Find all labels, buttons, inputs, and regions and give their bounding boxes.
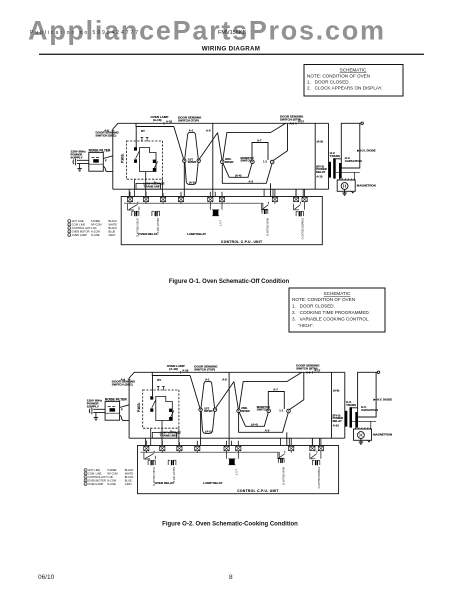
wire: filter to left vertical (lower, with hook): [103, 167, 113, 172]
svg-text:RELAY: RELAY: [316, 170, 325, 174]
label oven lamp (top): [151, 115, 203, 122]
svg-text:A-3: A-3: [249, 180, 254, 184]
terminal circle: [361, 122, 363, 124]
wire: main loop bottom: [113, 188, 329, 190]
svg-text:OVEN LAMP: OVEN LAMP: [72, 233, 87, 237]
label H.V. CAPACITOR: [345, 156, 363, 163]
svg-text:A-17: A-17: [298, 119, 305, 123]
connector stubs: [130, 189, 305, 197]
label A-18 tick on top wire: [163, 122, 165, 125]
svg-text:OVEN RELAY: OVEN RELAY: [138, 232, 157, 236]
cradle wire circle3-circle5 (lower): [222, 164, 271, 184]
arch wire between circles 1-2: [185, 132, 199, 159]
relay body outline: [140, 148, 157, 172]
wire: full-height vertical at x=212.8: [212, 123, 214, 196]
label door sensing switch (btm): [280, 115, 304, 122]
svg-text:Figure O-1. Oven Schematic-Off: Figure O-1. Oven Schematic-Off Condition: [169, 279, 290, 285]
svg-text:SCHEMATIC: SCHEMATIC: [324, 291, 351, 296]
svg-text:BLACK: BLACK: [109, 219, 118, 223]
wire: transformer to capacitor: [336, 158, 342, 160]
svg-text:Figure O-2. Oven Schematic-Coo: Figure O-2. Oven Schematic-Cooking Condi…: [162, 522, 298, 528]
svg-text:(A-2): (A-2): [189, 181, 195, 185]
svg-text:SWITCH (TOP): SWITCH (TOP): [178, 118, 199, 122]
wire: circle2 diagonal up to plateau: [199, 133, 217, 160]
svg-text:OVEN MOTOR: OVEN MOTOR: [72, 230, 90, 234]
relay coil 4 (power relay): [296, 211, 303, 216]
noise filter internals: [89, 158, 104, 165]
svg-text:2. COOKING TIME PROGRAMMED.: 2. COOKING TIME PROGRAMMED.: [292, 310, 370, 315]
svg-text:L.V.T: L.V.T: [218, 220, 222, 226]
H.V. diode symbol: [357, 150, 359, 152]
svg-text:P.W.B.: P.W.B.: [121, 153, 125, 163]
svg-text:MAGNETRON: MAGNETRON: [357, 184, 376, 188]
label 2nd interlock: [225, 157, 233, 164]
interlock switch circle 3: [221, 160, 225, 164]
svg-text:3. VARIABLE COOKING CONTRO: 3. VARIABLE COOKING CONTROL: [292, 317, 369, 322]
wire: main loop top: [113, 123, 329, 129]
label monitor switch: [241, 156, 254, 163]
svg-text:5-WIRE: 5-WIRE: [91, 219, 100, 223]
arrow mark: [351, 191, 354, 193]
svg-text:A-5: A-5: [206, 129, 211, 133]
svg-text:2. CLOCK APPEARS ON DISPLAY.: 2. CLOCK APPEARS ON DISPLAY.: [307, 86, 382, 91]
L.V. transformer blob: [213, 210, 219, 216]
legend: circled wire numbers: [68, 220, 71, 237]
wire: inner top run to relay: [136, 123, 174, 126]
rect wire above circle 4: [252, 143, 268, 161]
svg-text:WHITE: WHITE: [109, 223, 118, 227]
svg-text:NF-COM: NF-COM: [91, 223, 101, 227]
svg-text:LAMP RELAY: LAMP RELAY: [187, 232, 206, 236]
H.V. capacitor rectangle: [341, 123, 360, 168]
label H.V. TRANS: [330, 151, 340, 158]
svg-text:INTER: INTER: [225, 160, 233, 164]
svg-text:SUPPLY: SUPPLY: [71, 155, 84, 159]
svg-text:1-NF: 1-NF: [91, 226, 97, 230]
ground (power supply): [77, 164, 81, 172]
svg-text:FMV156KB: FMV156KB: [218, 30, 246, 36]
svg-text:MAIN RELAY D: MAIN RELAY D: [265, 218, 269, 236]
vertical relay designation texts: [136, 218, 305, 240]
svg-text:BLACK: BLACK: [109, 226, 118, 230]
svg-text:1. DOOR CLOSED.: 1. DOOR CLOSED.: [307, 80, 350, 85]
plug prongs: [73, 159, 89, 166]
relay contact arm: [136, 151, 158, 168]
relay coil 2: [152, 211, 160, 216]
svg-text:BLUE: BLUE: [109, 230, 116, 234]
svg-text:TRANS UNIT: TRANS UNIT: [144, 184, 162, 188]
interlock switch circle 5: [270, 160, 274, 164]
wire: relay feed vertical: [135, 127, 137, 148]
brace below relay: [154, 182, 163, 185]
interlock switch circle 2: [197, 159, 200, 162]
svg-text:A-10: A-10: [316, 174, 323, 178]
wire: drop below circle 1: [183, 162, 185, 196]
svg-text:WIRING DIAGRAM: WIRING DIAGRAM: [202, 46, 261, 53]
svg-text:NOTE: CONDITION OF OVEN: NOTE: CONDITION OF OVEN: [307, 74, 370, 79]
dashed control board box: [126, 141, 162, 179]
svg-text:POWER RELAY D: POWER RELAY D: [301, 218, 305, 240]
svg-text:N-LINE: N-LINE: [91, 233, 100, 237]
svg-text:“HIGH”.: “HIGH”.: [298, 323, 314, 328]
svg-text:CAPACITOR: CAPACITOR: [345, 159, 363, 163]
svg-text:1 2: 1 2: [263, 159, 267, 163]
relay RY-1 pins: [141, 137, 149, 141]
connector plug boxes along band top: [127, 197, 307, 202]
label power relay RY-2: [316, 164, 327, 174]
schematic 2 (Figure O-2): translated copy of schematic 1: [84, 364, 392, 494]
legend texts: [68, 219, 117, 237]
label A-8 tick on left vertical: [111, 129, 114, 131]
interlock switch circle 1: [183, 159, 186, 162]
relay coil 3 (main relay): [262, 209, 268, 214]
svg-text:CONTROL HOT: CONTROL HOT: [72, 226, 91, 230]
wire: diagonal to interlock circle 1: [174, 127, 184, 159]
svg-text:A-18: A-18: [166, 119, 173, 123]
magnetron hatch top: [339, 178, 355, 180]
svg-text:NOTE: CONDITION OF OVEN: NOTE: CONDITION OF OVEN: [292, 297, 355, 302]
wire: drop below circle-5 branch to band: [270, 183, 272, 196]
svg-text:TRANS: TRANS: [330, 154, 340, 158]
low voltage trans unit box on bottom wire: [136, 183, 161, 189]
relay coil (oven relay): [132, 211, 139, 216]
svg-text:A-1: A-1: [189, 128, 194, 132]
svg-text:A-7: A-7: [257, 139, 262, 143]
wire: top branch down to circle 5: [273, 123, 288, 161]
magnetron tube circle: [341, 183, 348, 190]
svg-text:A-8: A-8: [104, 129, 109, 133]
label A-17 tick on top wire right: [295, 122, 297, 125]
svg-text:N-COM: N-COM: [91, 230, 100, 234]
note box 1: [304, 65, 403, 97]
interlock label near circles 1-2: [188, 157, 196, 164]
band inner bus line: [124, 203, 263, 208]
svg-text:8: 8: [229, 574, 233, 581]
svg-text:GRAY: GRAY: [109, 233, 116, 237]
interlock switch circle 4: [251, 160, 255, 164]
label 120V 60Hz supply: [71, 150, 87, 160]
label low voltage trans unit: [144, 182, 165, 189]
relay contact blobs: [134, 147, 156, 171]
wire: main loop left vertical: [112, 129, 114, 189]
wire: mid-right vertical (power relay branch): [314, 123, 316, 189]
noise filter box: [89, 152, 104, 171]
magnetron box: [337, 180, 355, 191]
svg-text:RY: RY: [141, 129, 145, 133]
cradle wire circle3-circle4: [223, 163, 252, 177]
wire: lambda down to circle 3: [218, 133, 222, 160]
wire: main loop right vertical: [328, 123, 330, 189]
transformer winding bars: [329, 158, 342, 178]
U loop below circles 1-2: [185, 162, 198, 184]
svg-text:F: F: [105, 159, 107, 163]
svg-text:A-6: A-6: [290, 122, 295, 126]
filament wires: [336, 168, 360, 180]
svg-text:H.V. DIODE: H.V. DIODE: [360, 149, 375, 153]
ground (magnetron): [342, 189, 346, 195]
wire: filter to left vertical (upper): [103, 156, 113, 159]
svg-text:COM. LINE: COM. LINE: [72, 223, 86, 227]
relay lever symbols in band: [128, 202, 139, 210]
svg-text:(A-9): (A-9): [317, 139, 323, 143]
note box 2: [289, 288, 385, 332]
wire: circle 3 up to plateau and right run: [223, 123, 286, 160]
svg-text:SWITCH (SEC): SWITCH (SEC): [96, 134, 117, 138]
svg-text:(A-16): (A-16): [153, 118, 162, 122]
svg-text:CONTROL C.P.U. UNIT: CONTROL C.P.U. UNIT: [221, 240, 262, 244]
svg-text:SWITCH: SWITCH: [241, 158, 252, 162]
svg-text:SCHEMATIC: SCHEMATIC: [340, 68, 367, 73]
svg-text:INTER: INTER: [188, 160, 196, 164]
header rule: [39, 54, 424, 55]
svg-text:06/10: 06/10: [38, 574, 55, 581]
connector band rectangle: [121, 197, 322, 245]
label door sensing switch (sec) left: [96, 131, 120, 138]
svg-text:HOT LINE: HOT LINE: [72, 219, 84, 223]
wire drops into band from switches: [215, 189, 303, 196]
svg-text:(A-4): (A-4): [235, 174, 241, 178]
wire drops from control box to connector band: [129, 172, 162, 197]
svg-text:1. DOOR CLOSED.: 1. DOOR CLOSED.: [292, 304, 335, 309]
